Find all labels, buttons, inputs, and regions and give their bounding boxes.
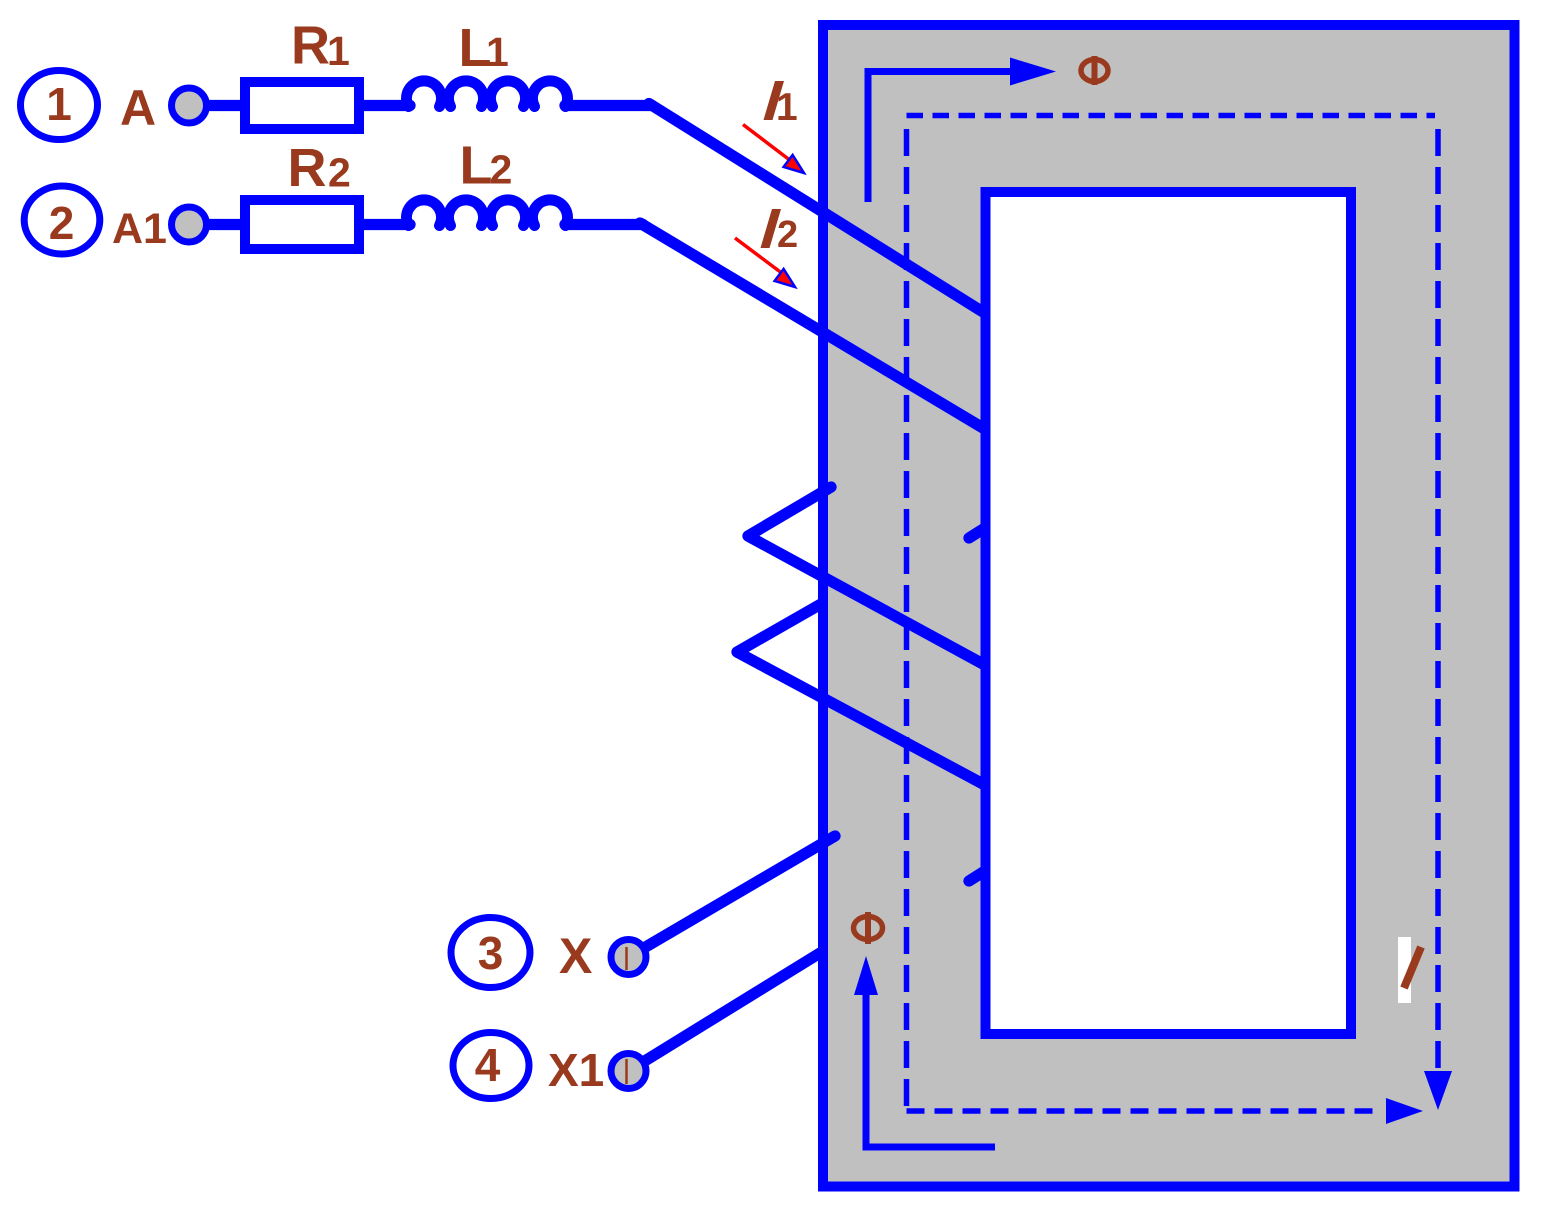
svg-text:A1: A1: [112, 205, 167, 253]
svg-text:L: L: [460, 136, 493, 196]
svg-text:2: 2: [49, 197, 75, 249]
svg-text:1: 1: [486, 29, 509, 75]
svg-text:A: A: [120, 80, 156, 136]
svg-text:1: 1: [327, 28, 350, 74]
svg-text:1: 1: [46, 78, 72, 130]
svg-text:R: R: [291, 16, 330, 76]
svg-text:2: 2: [328, 150, 351, 196]
svg-text:2: 2: [490, 147, 513, 193]
svg-text:3: 3: [478, 927, 504, 979]
svg-text:X1: X1: [548, 1044, 604, 1096]
svg-text:X: X: [559, 928, 592, 984]
svg-text:2: 2: [777, 214, 798, 256]
svg-text:1: 1: [776, 86, 798, 129]
svg-text:R: R: [288, 138, 327, 198]
svg-text:4: 4: [475, 1039, 501, 1091]
